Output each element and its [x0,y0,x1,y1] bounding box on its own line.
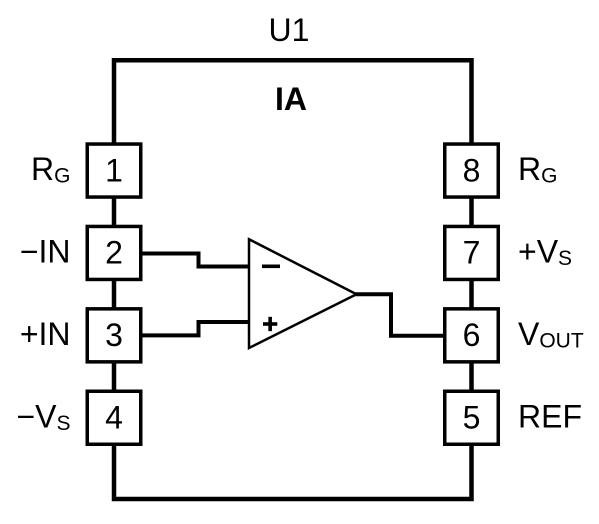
svg-text:8: 8 [463,152,481,188]
svg-text:4: 4 [105,400,123,436]
wire stub pin6-pin5 [469,363,474,391]
pin 4 box [87,391,141,444]
pin 6 box [445,309,499,362]
wire stub pin3-pin4 [112,363,117,391]
pin 5 box [445,391,499,444]
svg-text:3: 3 [105,317,123,353]
svg-text:−IN: −IN [20,234,71,270]
pin 1 box [87,144,141,197]
pin 2 box [87,226,141,279]
svg-text:5: 5 [463,400,481,436]
svg-text:1: 1 [105,152,123,188]
pin 3 box [87,309,141,362]
wire pin 2 to op-amp inverting input [143,254,250,267]
svg-text:7: 7 [463,235,481,271]
op-amp amplifier triangle [249,239,357,348]
wire stub pin8-pin7 [469,198,474,226]
svg-text:2: 2 [105,235,123,271]
wire pin 3 to op-amp non-inverting input [143,322,250,335]
svg-text:+IN: +IN [20,316,71,352]
wire top rail from pin 1 to pin 8 [114,60,472,143]
pin 7 box [445,226,499,279]
svg-text:6: 6 [463,317,481,353]
pin 8 box [445,144,499,197]
wire stub pin1-pin2 [112,198,117,226]
wire bottom rail from pin 4 to pin 5 [114,445,472,499]
wire stub pin7-pin6 [469,280,474,308]
svg-text:IA: IA [275,81,307,117]
svg-text:U1: U1 [269,12,310,48]
svg-text:REF: REF [518,398,582,434]
wire stub pin2-pin3 [112,280,117,308]
wire op-amp output to pin 6 [355,294,444,335]
op-amp inverting input minus sign [262,265,280,269]
op-amp non-inverting input plus sign [263,322,277,326]
